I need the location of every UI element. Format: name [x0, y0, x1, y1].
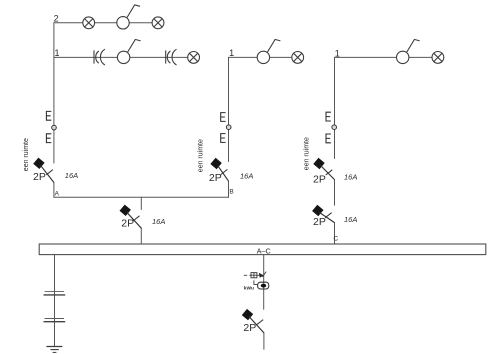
wire: node A to node B horizontal link [54, 196, 229, 198]
socket outlet X1a (circuit 1, earth bar) [93, 50, 95, 63]
lamp E2a (circuit 2) [83, 17, 95, 29]
lamp E2b (circuit 2) [152, 17, 164, 29]
switch S1 (circuit 1) [117, 40, 140, 64]
main switch contact blob [261, 284, 266, 288]
wire: middle riser below breaker to node B [228, 181, 230, 197]
kWh meter crossed box [251, 273, 257, 278]
breaker Q1 blade [40, 165, 54, 182]
wire: earth conductor from busbar [54, 255, 56, 347]
ground electrode symbol bar 1 [46, 346, 62, 348]
junction node circle (left) [52, 125, 57, 130]
breaker Q2 trip tick [221, 169, 228, 174]
kWh meter link to wire [257, 274, 259, 276]
wire: circuit 1 horizontal run [54, 56, 199, 58]
socket outlet X1b (circuit 1, earth bar) [165, 50, 167, 63]
wire: middle circuit horizontal run [229, 56, 304, 58]
earth terminal letter E (middle upper) [221, 113, 226, 122]
switch S4 (right circuit) [397, 40, 420, 64]
svg-text:B: B [229, 189, 233, 196]
switch S2 (circuit 2) [117, 5, 140, 29]
svg-text:2: 2 [54, 14, 59, 24]
breaker Q1 trip tick [46, 170, 53, 175]
svg-text:16A: 16A [344, 215, 357, 224]
lamp E1 (circuit 1) [188, 52, 200, 64]
earth test joint 1 upper strip [45, 290, 64, 292]
svg-text:2P: 2P [121, 217, 134, 229]
svg-text:2P: 2P [209, 172, 222, 184]
svg-text:kWu: kWu [244, 286, 254, 292]
breaker Q4 trip tick [325, 213, 332, 218]
svg-text:2P: 2P [313, 216, 326, 228]
lamp E3 (middle circuit) [292, 52, 304, 64]
ground electrode symbol bar 3 [53, 351, 57, 353]
earth test joint 2 lower strip [44, 321, 66, 323]
wire: circuit 2 horizontal run [54, 22, 164, 24]
junction node circle (right) [332, 125, 337, 130]
kWh meter dashed control line [244, 274, 251, 276]
main switch body (rounded box) [258, 282, 269, 289]
breaker Q5 (group feed) body [119, 205, 130, 216]
svg-text:1: 1 [55, 48, 60, 58]
wire: meter leg from busbar [263, 255, 265, 310]
wire: right riser upper segment [334, 57, 336, 158]
breaker Q5 trip tick [133, 216, 140, 221]
socket outlet X1b arc (outer) [172, 49, 176, 65]
socket outlet X1b arc (inner) [167, 51, 170, 63]
svg-text:1: 1 [229, 48, 234, 58]
earth test joint 1 lower strip [44, 294, 66, 296]
earth terminal letter E (right lower) [326, 134, 331, 143]
breaker Q4 blade [319, 212, 334, 222]
svg-text:een ruimte: een ruimte [304, 137, 311, 170]
svg-text:1: 1 [335, 48, 340, 58]
wire: left riser (circuit 1/2 feed, upper segment) [53, 23, 55, 163]
wire: supply tail below main breaker [263, 333, 265, 350]
wire: left riser below breaker to node A [53, 183, 55, 198]
svg-text:een ruimte: een ruimte [23, 138, 30, 171]
svg-text:2P: 2P [33, 171, 46, 183]
breaker Q5 blade [127, 212, 142, 228]
breaker Q3 trip tick [326, 170, 333, 175]
earth test joint 2 upper strip [45, 318, 64, 320]
svg-text:16A: 16A [65, 171, 78, 180]
wire: middle riser upper segment [228, 57, 230, 161]
breaker Q2 blade [218, 165, 229, 181]
earth terminal letter E (middle lower) [221, 134, 226, 143]
svg-text:16A: 16A [240, 171, 253, 180]
svg-text:C: C [333, 236, 338, 243]
breaker Q1 (left branch) body [33, 158, 44, 169]
svg-text:2P: 2P [243, 322, 256, 334]
svg-text:een ruimte: een ruimte [198, 139, 205, 172]
lamp E4 (right circuit) [432, 52, 444, 64]
kWh meter arrow on wire [259, 273, 264, 278]
svg-text:A: A [55, 191, 60, 198]
wire: group feed dropper below breaker to busbar [140, 228, 142, 244]
busbar (distribution bar) [39, 244, 486, 255]
kWh meter arrow stub across wire [262, 272, 266, 277]
earth terminal letter E (left lower) [46, 134, 51, 143]
main breaker Q6 blade [249, 317, 264, 333]
breaker Q3 (right branch upper) body [313, 158, 324, 169]
wire: group feed dropper from A-B link [140, 197, 142, 209]
main switch linkage [254, 280, 258, 284]
svg-text:2P: 2P [313, 173, 326, 185]
wire: right riser below second breaker to node C [334, 223, 336, 245]
main breaker Q6 body [242, 309, 253, 320]
wire: right riser between breakers [334, 180, 336, 206]
ground electrode symbol bar 2 [50, 349, 58, 351]
earth terminal letter E (left upper) [46, 111, 51, 120]
socket outlet X1a arc (outer) [100, 49, 104, 65]
main breaker Q6 trip tick [257, 320, 264, 325]
earth terminal letter E (right upper) [326, 112, 331, 121]
socket outlet X1a arc (inner) [96, 51, 99, 63]
wire: right circuit horizontal run [335, 56, 444, 58]
svg-text:A–C: A–C [257, 247, 271, 256]
switch S3 (middle circuit) [257, 40, 280, 64]
junction node circle (middle) [226, 125, 231, 130]
breaker Q2 (middle branch) body [210, 158, 221, 169]
breaker Q4 (right branch lower) body [312, 205, 323, 216]
svg-text:16A: 16A [344, 172, 357, 181]
breaker Q3 blade [321, 165, 335, 179]
svg-text:16A: 16A [152, 217, 165, 226]
